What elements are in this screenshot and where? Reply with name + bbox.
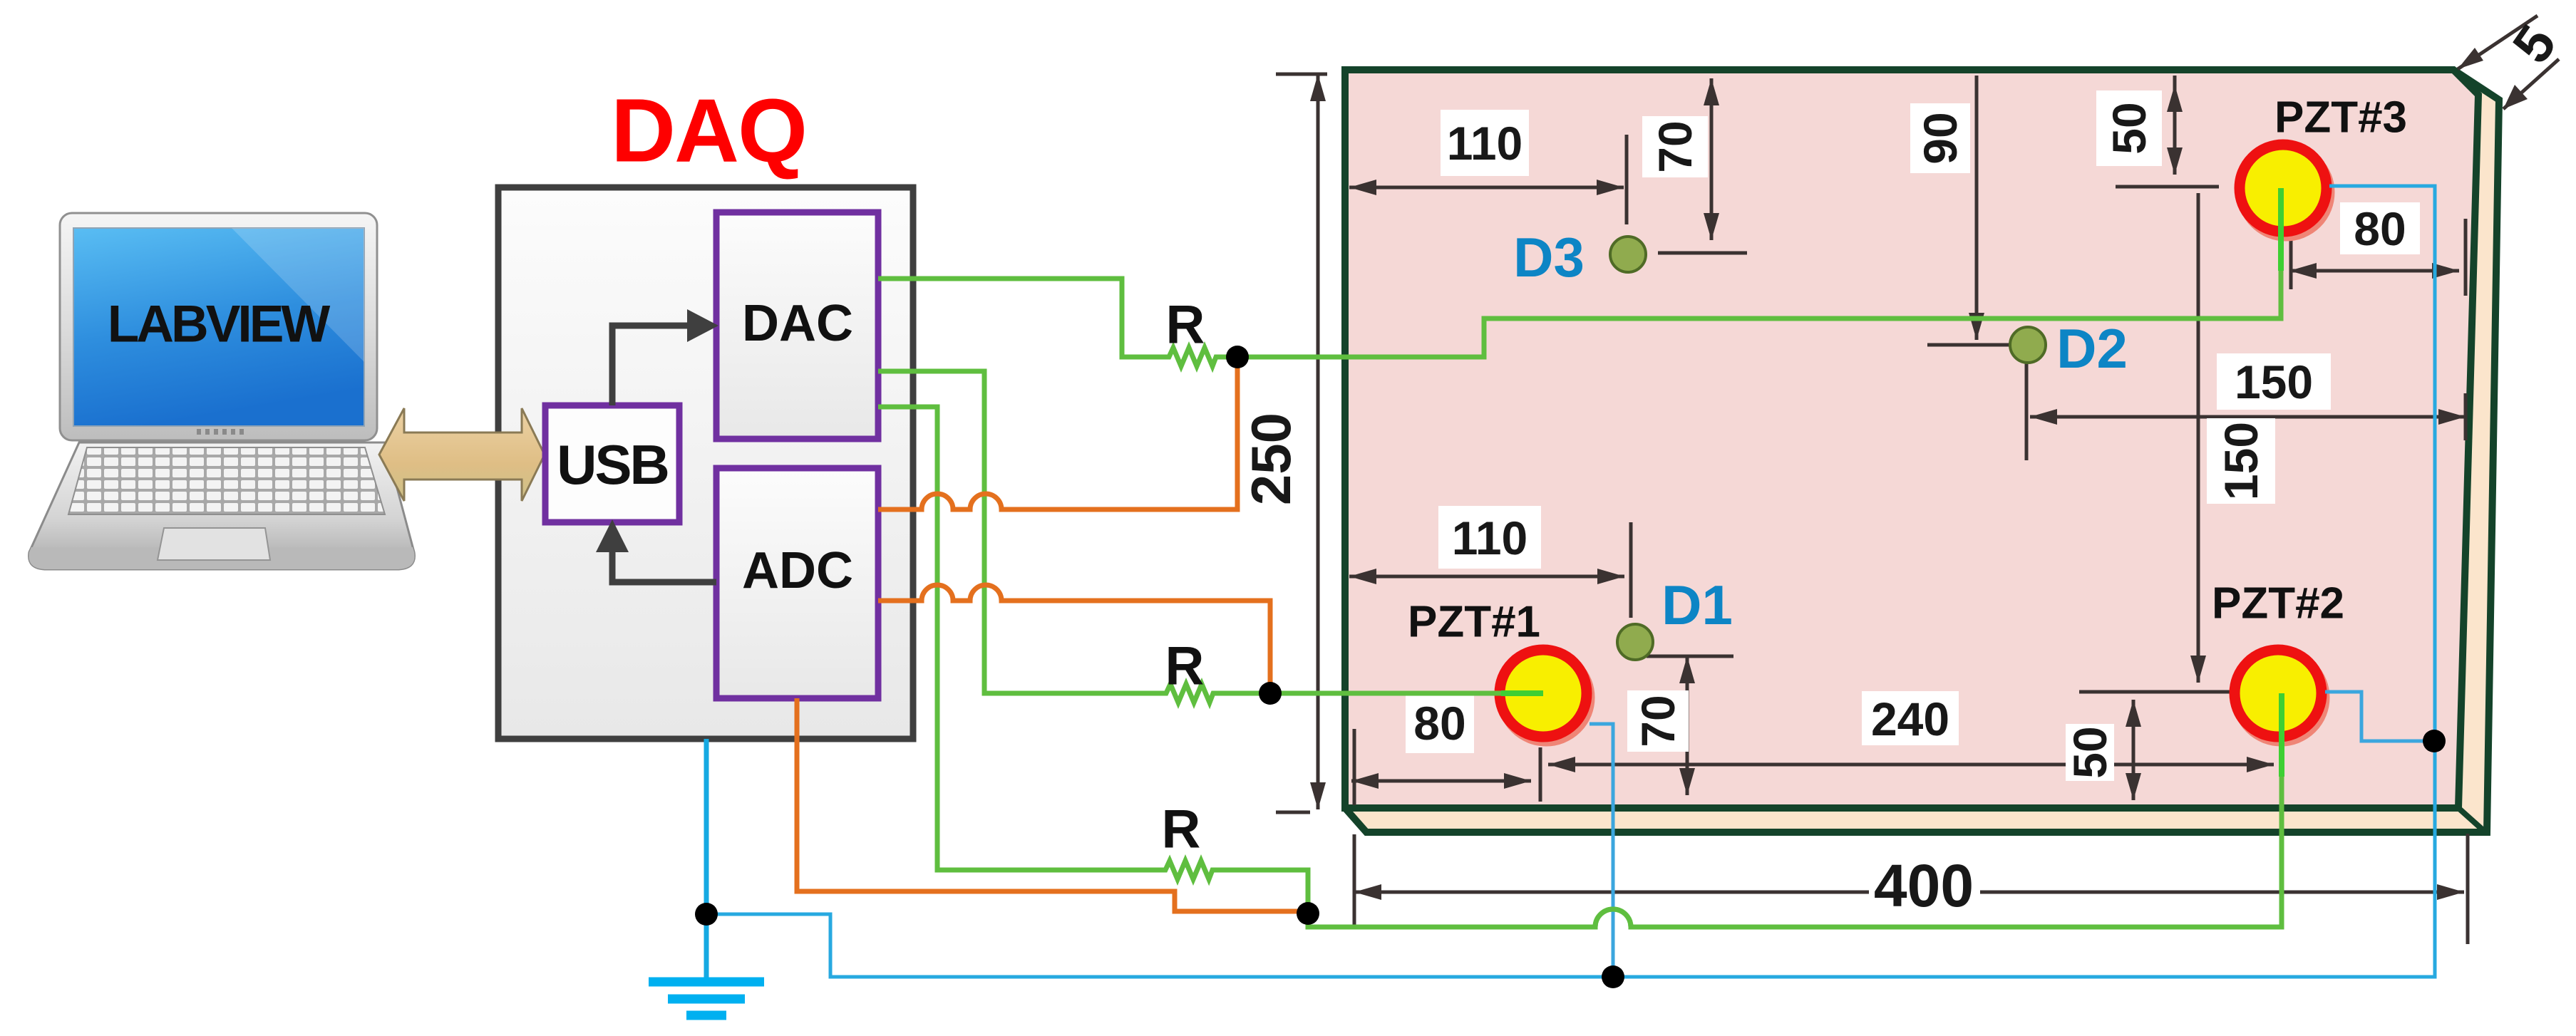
svg-text:LABVIEW: LABVIEW: [108, 296, 331, 353]
dim 110 lower line: [1349, 575, 1624, 579]
svg-text:USB: USB: [557, 433, 668, 496]
svg-text:150: 150: [2235, 356, 2313, 408]
junction node R1: [1226, 346, 1249, 368]
blue wire ground node to plate bottom run: [706, 186, 2435, 977]
svg-text:ADC: ADC: [742, 542, 853, 599]
svg-text:70: 70: [1632, 695, 1684, 747]
PZT#3 sensor: [2240, 145, 2329, 236]
svg-text:PZT#2: PZT#2: [2212, 579, 2344, 628]
label 80 lower: [1406, 693, 1474, 753]
svg-text:D3: D3: [1513, 226, 1585, 289]
svg-text:D1: D1: [1661, 574, 1733, 636]
damage D2: [2010, 327, 2046, 363]
orange wire ADC ch1 to node1: [878, 357, 1237, 509]
svg-text:240: 240: [1871, 693, 1949, 745]
label 90: [1910, 103, 1970, 173]
blue wire PZT#2 branch: [2325, 692, 2435, 741]
orange wire ADC bottom to node3: [797, 698, 1308, 911]
junction node R3: [1297, 902, 1319, 925]
svg-text:250: 250: [1240, 413, 1302, 505]
label 110 top: [1441, 110, 1529, 176]
damage D3: [1610, 237, 1646, 272]
label 150 horizontal: [2217, 353, 2331, 410]
label 80 top: [2340, 202, 2420, 254]
laptop screen gloss: [232, 228, 364, 362]
ground symbol: [649, 982, 764, 1015]
svg-text:D2: D2: [2056, 317, 2128, 380]
laptop lid: [60, 213, 377, 440]
label 240: [1862, 691, 1959, 745]
dim 90 line: [1975, 76, 1979, 340]
laptop bezel dots: [197, 429, 244, 435]
plate front face: [1345, 70, 2478, 808]
dim 5 lines: [2458, 16, 2538, 69]
svg-text:110: 110: [1447, 117, 1523, 170]
label 110 lower: [1438, 506, 1541, 569]
svg-text:110: 110: [1452, 512, 1527, 564]
dim 400 line: [1354, 891, 1869, 894]
dim arrowheads: [1310, 48, 2528, 900]
DAQ enclosure: [498, 187, 913, 739]
green wire DAC to R1 to PZT#3: [878, 188, 2281, 366]
green wire DAC to R3 to PZT#2: [878, 407, 2282, 927]
dim 50 top line: [2173, 76, 2177, 175]
svg-text:50: 50: [2103, 102, 2155, 154]
orange wire ADC ch2 to node2: [878, 585, 1270, 693]
svg-text:70: 70: [1649, 120, 1701, 172]
ADC box: [716, 468, 878, 698]
svg-text:DAQ: DAQ: [611, 81, 806, 181]
laptop keyboard keys: [68, 447, 385, 514]
PZT#2 sensor: [2235, 650, 2324, 741]
label 50 lower: [2066, 724, 2114, 781]
laptop front lip: [29, 547, 415, 569]
dim 80 top line: [2289, 269, 2459, 273]
DIMENSIONS GROUP: [1276, 16, 2559, 944]
junction node ground: [695, 903, 718, 926]
svg-text:R: R: [1166, 295, 1205, 356]
dim 50 lower line: [2132, 700, 2135, 800]
label 70 lower: [1627, 690, 1689, 752]
svg-text:R: R: [1162, 799, 1201, 860]
label 150 vertical: [2207, 418, 2275, 504]
svg-text:400: 400: [1874, 852, 1974, 919]
arrow ADC to USB: [612, 544, 716, 582]
dim 150 horizontal line: [2030, 415, 2466, 419]
green hop over blue: [1595, 909, 1631, 927]
dim 150 vertical line: [2197, 193, 2200, 683]
svg-text:PZT#3: PZT#3: [2274, 93, 2407, 143]
damage D1: [1617, 624, 1653, 660]
USB link double arrow: [379, 408, 545, 501]
dim 240 line: [1548, 763, 2274, 767]
junction node bottom blue: [1602, 965, 1624, 988]
svg-text:80: 80: [1413, 697, 1465, 750]
dim 80 lower line: [1351, 779, 1531, 783]
svg-text:90: 90: [1914, 112, 1967, 164]
bright stub PZT#2: [2279, 693, 2284, 777]
svg-text:R: R: [1165, 636, 1205, 697]
svg-text:PZT#1: PZT#1: [1408, 598, 1540, 647]
svg-text:DAC: DAC: [742, 295, 853, 352]
svg-text:5: 5: [2501, 14, 2568, 73]
bright stub PZT#1: [1501, 690, 1543, 696]
dim 250 line: [1317, 74, 1320, 809]
label 400: [1872, 858, 1976, 915]
svg-text:80: 80: [2354, 202, 2406, 255]
blue wire PZT#1 branch: [1590, 724, 1613, 977]
junction node R2: [1259, 682, 1282, 705]
dim 70 lower line: [1686, 656, 1689, 795]
laptop: [29, 213, 415, 569]
USB box: [545, 405, 679, 522]
plate corner edge bottom-right: [2458, 808, 2485, 832]
dim 110 top line: [1349, 186, 1624, 190]
blue wire DAQ to ground node: [704, 739, 709, 978]
DAC box: [716, 212, 878, 439]
green wire DAC to R2 to PZT#1: [878, 371, 1543, 703]
label 50 top: [2096, 90, 2162, 166]
svg-text:50: 50: [2064, 726, 2116, 778]
label 70 top: [1642, 116, 1708, 177]
laptop touchpad: [158, 528, 270, 560]
dim 70 top line: [1710, 78, 1714, 240]
arrow USB to DAC: [612, 326, 689, 405]
dim labels: [1240, 14, 2568, 919]
laptop screen: [73, 228, 364, 426]
laptop base body: [29, 442, 415, 569]
bright stub PZT#3: [2278, 188, 2284, 271]
junction node right blue: [2423, 730, 2446, 752]
plate 3D slab (side+bottom face): [1345, 70, 2499, 832]
svg-text:150: 150: [2215, 422, 2267, 500]
PZT#1 sensor: [1500, 650, 1590, 741]
